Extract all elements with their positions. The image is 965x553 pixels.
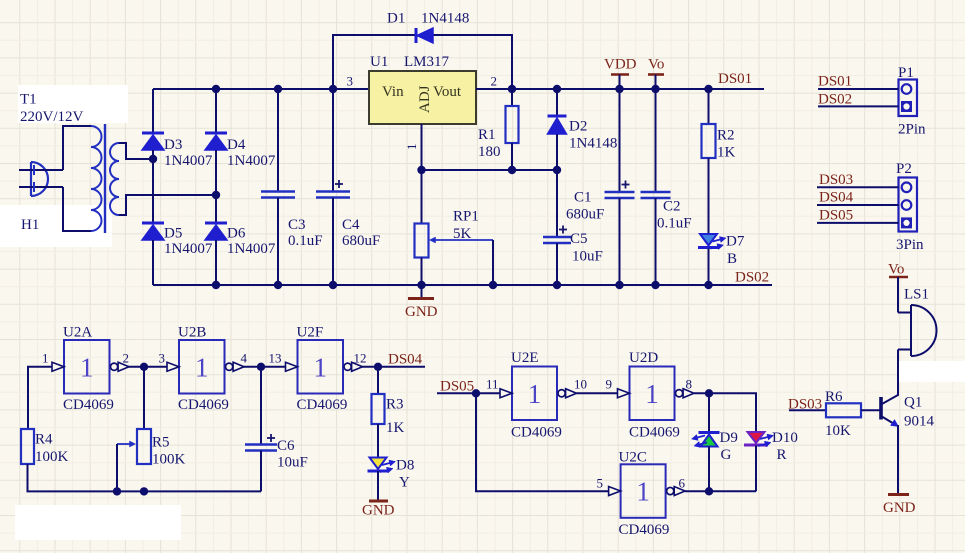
svg-text:B: B — [727, 251, 737, 267]
svg-text:1: 1 — [404, 144, 419, 151]
diode D1 — [333, 28, 512, 89]
svg-text:CD4069: CD4069 — [619, 522, 670, 538]
capacitor C1 — [605, 89, 635, 285]
wire DS05 to U2E input — [437, 392, 500, 394]
label D1 1N4148 — [387, 11, 469, 27]
pin 11 label — [486, 377, 499, 392]
label R5 100K — [152, 435, 186, 468]
svg-text:R1: R1 — [478, 127, 496, 143]
net label DS02 — [735, 270, 769, 286]
inverter U2A — [52, 340, 129, 394]
wire P1 pin2 DS02 — [818, 105, 899, 107]
svg-text:DS04: DS04 — [388, 352, 423, 368]
svg-text:H1: H1 — [21, 217, 39, 233]
pin 3 label — [347, 74, 354, 89]
wire R5 branch — [143, 367, 145, 429]
net label DS04 — [388, 352, 423, 368]
node bridge+ D4 junction — [212, 85, 220, 93]
label R6 10K — [825, 389, 851, 439]
label P2 3Pin — [896, 161, 924, 253]
wire U2B out to U2F in — [243, 366, 286, 368]
net label DS03 — [788, 396, 822, 412]
svg-text:9: 9 — [606, 377, 613, 392]
wire top bus left (bridge output to U1 Vin) — [153, 88, 369, 90]
svg-text:0.1uF: 0.1uF — [288, 233, 323, 249]
svg-text:DS01: DS01 — [718, 71, 752, 87]
net label DS04 at P2 — [819, 190, 854, 206]
svg-text:LS1: LS1 — [904, 287, 929, 303]
wire secondary top tap — [119, 143, 153, 159]
label U2D CD4069 — [629, 350, 680, 441]
net label DS05 — [440, 378, 474, 394]
inverter U2C — [609, 464, 686, 518]
power Vo at speaker — [888, 262, 908, 313]
svg-text:DS02: DS02 — [735, 270, 769, 286]
label D7 B — [726, 234, 745, 268]
inverter U2B — [167, 340, 244, 394]
node ADJ junction — [417, 166, 425, 174]
wire R4 bottom to feedback bus — [28, 464, 262, 491]
label RP1 5K — [453, 209, 479, 243]
wire U2C out to D10 bottom — [685, 490, 756, 492]
svg-text:R4: R4 — [35, 432, 53, 448]
svg-text:VDD: VDD — [604, 57, 637, 73]
svg-text:DS03: DS03 — [819, 172, 853, 188]
svg-text:ADJ: ADJ — [417, 85, 433, 113]
node bottom bus junctions — [212, 281, 713, 289]
pin 6 label — [679, 476, 686, 491]
LED D9 green — [692, 433, 720, 448]
svg-text:10K: 10K — [825, 423, 851, 439]
label U1 LM317 — [370, 54, 450, 70]
svg-text:3Pin: 3Pin — [896, 237, 924, 253]
svg-text:220V/12V: 220V/12V — [20, 109, 84, 125]
svg-text:G: G — [721, 447, 732, 463]
wire DS03 to R6 — [789, 409, 826, 411]
inverter U2E — [500, 367, 577, 421]
svg-text:1N4007: 1N4007 — [227, 241, 276, 257]
diode D6 — [205, 223, 227, 285]
power Vo — [648, 57, 664, 90]
capacitor C2 — [641, 89, 671, 285]
svg-text:1: 1 — [80, 352, 94, 382]
svg-text:R6: R6 — [825, 389, 843, 405]
pin 2 label — [491, 74, 498, 89]
label U2B CD4069 — [178, 325, 229, 414]
svg-text:6: 6 — [679, 476, 686, 491]
svg-text:D2: D2 — [569, 119, 587, 135]
label D6 1N4007 — [227, 226, 276, 258]
svg-text:1N4148: 1N4148 — [569, 136, 617, 152]
svg-text:CD4069: CD4069 — [63, 397, 114, 413]
label U2A CD4069 — [63, 325, 114, 414]
op-amp U1 LM317 regulator body — [369, 71, 476, 124]
node R5 wiper junction — [113, 487, 121, 495]
label D10 R — [772, 430, 798, 463]
label R4 100K — [35, 432, 69, 466]
svg-text:0.1uF: 0.1uF — [657, 216, 692, 232]
pin number labels row1 — [42, 351, 367, 366]
svg-text:U1: U1 — [370, 54, 388, 70]
svg-text:Vin: Vin — [382, 84, 404, 100]
wire D9 to bottom — [708, 447, 710, 492]
wire U2D out to LED branches — [694, 393, 756, 432]
label GND below Q1 — [883, 500, 916, 516]
svg-text:2: 2 — [123, 351, 130, 366]
wire U2A out to U2B in — [129, 366, 168, 368]
wire R6 to Q1 base — [861, 409, 880, 411]
capacitor C3 — [261, 89, 295, 285]
svg-text:1: 1 — [195, 352, 209, 382]
svg-text:4: 4 — [241, 351, 248, 366]
label D4 1N4007 — [227, 137, 276, 169]
diode D5 — [142, 223, 164, 285]
svg-text:CD4069: CD4069 — [511, 425, 562, 441]
svg-text:180: 180 — [478, 144, 501, 160]
svg-text:1: 1 — [42, 351, 49, 366]
node pin2/R1/D1 junction — [508, 85, 516, 93]
svg-text:D10: D10 — [772, 430, 798, 446]
transistor Q1 9014 — [881, 395, 899, 427]
svg-text:10: 10 — [574, 377, 587, 392]
svg-text:Vout: Vout — [433, 84, 462, 100]
svg-text:P2: P2 — [896, 161, 912, 177]
svg-text:D8: D8 — [396, 458, 414, 474]
svg-text:R3: R3 — [386, 397, 404, 413]
svg-text:D7: D7 — [726, 234, 745, 250]
ground symbol below RP1 — [408, 285, 434, 299]
pin 10 label — [574, 377, 587, 392]
svg-text:1N4148: 1N4148 — [421, 11, 469, 27]
svg-text:CD4069: CD4069 — [178, 397, 229, 413]
node D3-D5 secondary tap junction — [149, 155, 157, 163]
label D9 G — [720, 430, 738, 463]
svg-text:R2: R2 — [717, 128, 735, 144]
ground symbol below D8 — [369, 471, 388, 501]
svg-text:U2A: U2A — [63, 325, 92, 341]
wire P2 pin3 DS05 — [817, 222, 899, 224]
svg-text:5K: 5K — [453, 226, 472, 242]
pin 9 label — [606, 377, 613, 392]
svg-text:R: R — [777, 447, 787, 463]
wire R3 branch — [377, 367, 379, 394]
wire U2E out to U2D in — [577, 392, 618, 394]
capacitor C6 — [245, 367, 277, 492]
diode D4 — [205, 89, 227, 223]
potentiometer RP1 — [415, 170, 494, 285]
resistor R6 — [826, 403, 861, 417]
label R2 1K — [717, 128, 736, 161]
label C1 680uF — [566, 190, 604, 223]
node D2 bottom junction — [553, 166, 561, 174]
label C3 0.1uF — [288, 217, 323, 249]
LED D7 blue — [698, 234, 726, 285]
svg-text:10uF: 10uF — [572, 249, 603, 265]
potentiometer R5 — [117, 429, 151, 491]
svg-text:CD4069: CD4069 — [297, 397, 348, 413]
svg-text:1N4007: 1N4007 — [164, 241, 213, 257]
svg-text:D5: D5 — [164, 226, 182, 242]
label P1 2Pin — [898, 65, 926, 138]
label C6 10uF — [277, 438, 308, 471]
node R1 bottom junction — [508, 166, 516, 174]
svg-text:2: 2 — [491, 74, 498, 89]
svg-text:3: 3 — [159, 351, 166, 366]
svg-text:T1: T1 — [20, 92, 37, 108]
node D4-D6 secondary tap junction — [212, 191, 220, 199]
svg-text:DS05: DS05 — [819, 208, 853, 224]
net label DS01 at P1 — [818, 74, 852, 90]
inverter U2F — [286, 340, 363, 394]
svg-text:C4: C4 — [342, 217, 360, 233]
svg-text:U2F: U2F — [297, 325, 324, 341]
wire D10 to bottom — [755, 446, 757, 492]
node VDD/C1 junction — [615, 85, 623, 93]
label LS1 — [904, 287, 929, 303]
node C6 top junction — [257, 363, 265, 371]
node Vo/C2 junction — [651, 85, 659, 93]
label GND — [405, 304, 438, 320]
svg-text:C2: C2 — [663, 199, 681, 215]
svg-text:U2B: U2B — [178, 325, 206, 341]
svg-text:680uF: 680uF — [566, 207, 604, 223]
svg-text:100K: 100K — [152, 452, 186, 468]
power VDD — [604, 57, 637, 90]
resistor R2 — [702, 89, 716, 233]
inverter U2D — [618, 367, 695, 421]
pin 5 label — [597, 476, 604, 491]
svg-text:1: 1 — [528, 379, 542, 409]
svg-text:C6: C6 — [277, 438, 295, 454]
label T1 220V/12V — [20, 92, 84, 126]
label D3 1N4007 — [164, 137, 213, 169]
svg-text:12: 12 — [354, 351, 367, 366]
node U2A output junction — [140, 363, 148, 371]
node C4/D1 top junction — [329, 85, 337, 93]
node R2 top junction — [704, 85, 712, 93]
label C5 10uF — [570, 231, 603, 265]
capacitor C5 — [543, 170, 571, 285]
svg-text:U2E: U2E — [511, 350, 539, 366]
svg-text:3: 3 — [347, 74, 354, 89]
LED D10 red — [744, 432, 774, 447]
node C3 top junction — [274, 85, 282, 93]
svg-text:11: 11 — [486, 377, 499, 392]
wire P2 pin1 DS03 — [817, 186, 899, 188]
label U2F CD4069 — [297, 325, 348, 414]
svg-text:100K: 100K — [35, 449, 69, 465]
label U2E CD4069 — [511, 350, 562, 441]
resistor R3 — [372, 394, 385, 424]
label H1 — [21, 217, 39, 233]
svg-text:D1: D1 — [387, 11, 405, 27]
label U2C CD4069 — [619, 450, 670, 539]
wire Q1 collector up — [897, 350, 899, 396]
svg-text:1: 1 — [645, 379, 659, 409]
wire R3 to D8 — [377, 424, 379, 457]
LED D8 yellow — [368, 458, 396, 474]
wire primary top lead — [63, 126, 91, 170]
svg-text:1N4007: 1N4007 — [227, 153, 276, 169]
net label DS05 at P2 — [819, 208, 853, 224]
label D8 Y — [396, 458, 414, 491]
label C4 680uF — [342, 217, 380, 249]
svg-text:DS05: DS05 — [440, 378, 474, 394]
svg-text:CD4069: CD4069 — [629, 425, 680, 441]
svg-text:13: 13 — [269, 351, 282, 366]
diode D3 — [142, 89, 164, 223]
wire ADJ row — [422, 169, 558, 171]
label Q1 9014 — [904, 395, 935, 430]
svg-text:RP1: RP1 — [453, 209, 479, 225]
label D5 1N4007 — [164, 226, 213, 258]
svg-text:GND: GND — [362, 503, 395, 519]
label R1 180 — [478, 127, 501, 160]
node D2 top junction — [553, 85, 561, 93]
svg-text:680uF: 680uF — [342, 233, 380, 249]
wire P1 pin1 DS01 — [818, 88, 899, 90]
wire P2 pin2 DS04 — [817, 204, 899, 206]
label C2 0.1uF — [657, 199, 692, 232]
label D2 1N4148 — [569, 119, 617, 152]
ground symbol below Q1 — [888, 493, 909, 496]
node U2C output junction — [705, 487, 713, 495]
svg-text:DS01: DS01 — [818, 74, 852, 90]
svg-text:D4: D4 — [227, 137, 246, 153]
svg-text:P1: P1 — [898, 65, 914, 81]
svg-text:DS04: DS04 — [819, 190, 854, 206]
svg-text:1: 1 — [636, 477, 650, 507]
svg-text:2Pin: 2Pin — [898, 122, 926, 138]
svg-text:10uF: 10uF — [277, 455, 308, 471]
node D9 top junction — [705, 389, 713, 397]
pin 8 label — [686, 377, 693, 392]
node R3 top junction — [374, 363, 382, 371]
wire primary bottom lead — [63, 187, 91, 231]
svg-text:9014: 9014 — [904, 414, 935, 430]
node R5 bottom junction — [140, 487, 148, 495]
svg-text:D3: D3 — [164, 137, 182, 153]
label GND below D8 — [362, 503, 395, 519]
svg-text:U2C: U2C — [619, 450, 647, 466]
svg-text:Y: Y — [399, 475, 410, 491]
label R3 1K — [386, 397, 405, 437]
wire Q1 emitter down — [897, 425, 899, 493]
resistor R1 — [506, 89, 519, 170]
svg-text:Q1: Q1 — [904, 395, 922, 411]
svg-text:C1: C1 — [574, 190, 592, 206]
wire DS05 branch down to U2C — [476, 393, 609, 491]
svg-text:1: 1 — [314, 352, 328, 382]
wire U2A input feedback — [28, 367, 52, 429]
wire U1 Vout to output bus — [476, 88, 764, 90]
speaker LS1 — [898, 305, 937, 356]
capacitor C4 — [316, 89, 350, 285]
svg-text:1N4007: 1N4007 — [164, 153, 213, 169]
diode D2 — [548, 89, 567, 170]
svg-text:U2D: U2D — [629, 350, 658, 366]
connector P2 — [899, 178, 918, 232]
svg-text:GND: GND — [883, 500, 916, 516]
svg-text:8: 8 — [686, 377, 693, 392]
svg-text:LM317: LM317 — [404, 54, 450, 70]
wire D9 branch — [708, 393, 710, 433]
svg-text:5: 5 — [597, 476, 604, 491]
net label DS02 at P1 — [818, 92, 852, 108]
connector P1 — [899, 80, 918, 117]
transformer T1 — [91, 124, 119, 233]
pin 1 label — [404, 144, 419, 151]
svg-text:R5: R5 — [152, 435, 170, 451]
node DS05 junction — [472, 389, 480, 397]
wire U2F out to DS04 — [362, 366, 425, 368]
svg-text:C5: C5 — [570, 231, 588, 247]
svg-text:1K: 1K — [386, 420, 405, 436]
svg-text:C3: C3 — [288, 217, 306, 233]
wire bottom bus (GND rail) — [153, 284, 772, 286]
resistor R4 — [21, 429, 34, 464]
svg-text:1K: 1K — [717, 145, 736, 161]
net label DS01 — [718, 71, 752, 87]
svg-text:GND: GND — [405, 304, 438, 320]
wire secondary bottom tap — [119, 195, 216, 215]
plug H1 — [19, 162, 63, 196]
svg-text:Vo: Vo — [648, 57, 664, 73]
svg-text:Vo: Vo — [888, 262, 904, 278]
net label DS03 at P2 — [819, 172, 853, 188]
wire ADJ pin down — [421, 124, 423, 170]
svg-text:DS02: DS02 — [818, 92, 852, 108]
svg-text:D6: D6 — [227, 226, 246, 242]
svg-text:D9: D9 — [720, 430, 738, 446]
